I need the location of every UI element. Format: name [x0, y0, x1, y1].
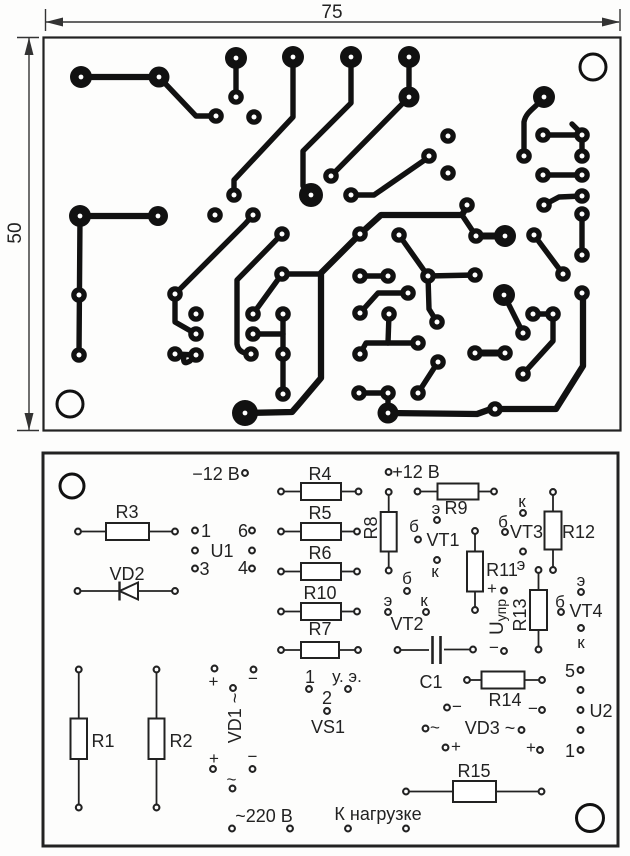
svg-text:VT2: VT2 — [390, 614, 423, 634]
wire thick (476,236)-(505,236) — [476, 233, 505, 240]
svg-text:VT1: VT1 — [426, 530, 459, 550]
pad (360,234) — [352, 226, 368, 242]
wire s-curve (175,354)-(196,355) — [175, 354, 196, 363]
pad ~220V left — [229, 826, 235, 832]
pad (495,409) — [487, 401, 503, 417]
pad (543,135) — [535, 127, 551, 143]
VT1 pad э — [434, 517, 440, 523]
wire diagonal (282,274)-(253,314) — [253, 274, 282, 314]
wire main vertical x=321 — [245, 234, 360, 413]
pad (196,334) — [188, 326, 204, 342]
pad (234,195) — [226, 187, 242, 203]
resistor R7 — [278, 619, 361, 658]
svg-text:VT4: VT4 — [569, 601, 602, 621]
pad (429,156) — [421, 148, 437, 164]
svg-text:VD1 ~: VD1 ~ — [225, 693, 245, 744]
svg-text:5: 5 — [565, 661, 575, 681]
VT4 pad к — [578, 625, 584, 631]
wire vertical (409,57)-(409,97) — [406, 57, 411, 97]
svg-text:−: − — [528, 699, 538, 718]
pad (523,333) — [515, 325, 531, 341]
VD3 pad ~ right — [519, 727, 525, 733]
pad (253,215) — [245, 207, 261, 223]
svg-text:+: + — [487, 579, 497, 598]
pad (438,362) — [430, 354, 446, 370]
pad (79,355) — [71, 347, 87, 363]
pad (175,294) — [167, 286, 183, 302]
svg-text:4: 4 — [238, 558, 248, 578]
resistor R13 — [510, 567, 547, 652]
resistor R10 — [278, 583, 360, 620]
svg-text:R5: R5 — [308, 503, 331, 523]
svg-text:э: э — [577, 571, 586, 590]
pad Uупр - — [501, 648, 507, 654]
wire curved (544,97)-(524,156) — [524, 97, 544, 156]
op-amp U2 — [578, 667, 584, 753]
component board outline (bottom view) — [43, 453, 618, 846]
pad large (236,58) — [225, 47, 247, 69]
svg-text:у. э.: у. э. — [332, 667, 362, 686]
wire (351,195)-(429,157) — [351, 157, 429, 195]
pad (543,175) — [535, 167, 551, 183]
svg-text:э: э — [432, 499, 441, 518]
wire from pad (293,57) — [234, 57, 293, 195]
pad (283,314) — [275, 306, 291, 322]
VS1 pad 1 — [306, 686, 312, 692]
svg-text:VD3 ~: VD3 ~ — [465, 718, 516, 738]
svg-text:VT3: VT3 — [510, 522, 543, 542]
pad (196,355) — [188, 347, 204, 363]
svg-text:б: б — [409, 517, 419, 536]
pad (418,393) — [410, 385, 426, 401]
pad (282,234) — [274, 226, 290, 242]
pad (553,314) — [545, 306, 561, 322]
svg-text:−: − — [452, 697, 462, 716]
pad К нагрузке right — [403, 826, 409, 832]
pad large (504,295) — [493, 284, 515, 306]
svg-text:б: б — [402, 569, 412, 588]
pad Uупр + — [501, 588, 507, 594]
VD1 pad ~ bottom — [230, 786, 236, 792]
svg-text:75: 75 — [321, 2, 342, 23]
pad (360,354) — [352, 346, 368, 362]
pad (582,175) — [574, 167, 590, 183]
VT3 pad б — [502, 529, 508, 535]
wire (253,215)-(175,294) — [175, 215, 253, 294]
pad (360,313) — [352, 305, 368, 321]
svg-text:−: − — [489, 638, 499, 657]
svg-text:−: − — [248, 747, 258, 766]
dimension line 50 — [17, 38, 39, 431]
VD1 pad + top — [212, 666, 218, 672]
pad large (80,216) — [69, 205, 91, 227]
VT1 pad к — [434, 557, 440, 563]
diode VD2 — [75, 582, 178, 601]
pad large (409,57) — [398, 46, 420, 68]
resistor R12 — [545, 489, 596, 573]
pad large (409,97) — [399, 87, 420, 108]
wire (408,293)-(360,313) — [360, 293, 408, 313]
svg-text:C1: C1 — [419, 672, 442, 692]
svg-text:R9: R9 — [444, 498, 467, 518]
svg-text:R12: R12 — [562, 522, 595, 542]
svg-text:R1: R1 — [91, 731, 114, 751]
svg-text:R14: R14 — [488, 690, 521, 710]
wire diagonal (534,235)-(563,274) — [534, 235, 563, 274]
VT2 pad б — [404, 588, 410, 594]
svg-text:к: к — [420, 591, 428, 610]
pad (283,354) — [275, 346, 291, 362]
op-amp U1 — [192, 528, 255, 572]
pad (534,235) — [526, 227, 542, 243]
pad (582,135) — [574, 127, 590, 143]
wire vertical (389,314)-(388,343) — [388, 314, 389, 343]
svg-text:+: + — [451, 737, 461, 756]
VT2 pad э — [385, 609, 391, 615]
resistor R5 — [278, 503, 360, 540]
svg-text:э: э — [517, 555, 526, 574]
svg-text:~220 В: ~220 В — [235, 806, 293, 826]
pad (253,314) — [245, 306, 261, 322]
pad (283,394) — [275, 386, 291, 402]
resistor R14 — [464, 672, 545, 711]
pad (563,274) — [555, 266, 571, 282]
svg-text:2: 2 — [322, 688, 332, 708]
pad -12V — [242, 470, 248, 476]
pad large (245,413) — [232, 400, 258, 426]
pad large (311,195) — [299, 183, 323, 207]
wire pair (360,276)-(388,276) — [360, 273, 388, 278]
svg-text:VS1: VS1 — [311, 717, 345, 737]
pad (467,205) — [459, 197, 475, 213]
resistor R8 — [361, 489, 397, 573]
svg-text:R2: R2 — [169, 731, 192, 751]
VT4 pad э — [578, 589, 584, 595]
PCB board outline (top view) — [44, 38, 621, 431]
wire (80,216)-(158,216) — [80, 213, 158, 219]
wire (418,343)-(360,354) — [360, 343, 418, 354]
pad ~220V right — [287, 826, 293, 832]
pad large (81,77) — [70, 66, 92, 88]
wire group (543,135) — [543, 124, 582, 156]
svg-text:+: + — [209, 749, 219, 768]
wire vertical (582,214)-(582,255) — [579, 214, 584, 255]
pad (388,393) — [380, 385, 396, 401]
VD3 pad ~ left — [423, 726, 429, 732]
svg-text:R7: R7 — [308, 619, 331, 639]
pad large (505,236) — [494, 225, 516, 247]
resistor R15 — [403, 761, 544, 802]
wire horizontal net y=215 — [360, 206, 467, 234]
svg-text:1: 1 — [201, 521, 211, 541]
VD3 pad + left — [443, 745, 449, 751]
wire branch to pad (476,236) — [462, 215, 476, 236]
pad (582,156) — [574, 148, 590, 164]
wire diag to pad (216,116) — [159, 77, 216, 116]
VT4 pad б — [558, 609, 564, 615]
mounting hole top-left — [60, 474, 84, 498]
VT3 pad к — [520, 510, 526, 516]
pad (389,314) — [381, 306, 397, 322]
pad (351,195) — [343, 187, 359, 203]
svg-text:R8: R8 — [361, 516, 381, 539]
wire thick (475,353)-(505,353) — [475, 350, 505, 357]
svg-text:−12 В: −12 В — [192, 464, 240, 484]
pad large (293,57) — [282, 46, 304, 68]
pad (251,354) — [243, 346, 259, 362]
pad (253,334) — [245, 326, 261, 342]
resistor R3 — [75, 502, 178, 540]
pad (216,116) — [208, 108, 224, 124]
resistor R6 — [278, 543, 360, 580]
resistor R4 — [278, 464, 361, 500]
pad (282,274) — [274, 266, 290, 282]
pad (505,353) — [497, 345, 513, 361]
svg-text:1: 1 — [305, 667, 315, 687]
svg-text:R3: R3 — [115, 502, 138, 522]
pad (448,136) — [440, 128, 456, 144]
svg-text:R10: R10 — [303, 583, 336, 603]
svg-text:3: 3 — [199, 559, 209, 579]
VD3 pad - left — [444, 705, 450, 711]
mounting hole top-right — [580, 54, 606, 80]
VD1 pad + bottom — [210, 766, 216, 772]
VS1 pad у.э. — [345, 686, 351, 692]
VD3 pad - right — [539, 707, 545, 713]
pad (215,215) — [207, 207, 223, 223]
svg-text:−: − — [248, 669, 258, 688]
VD1 pad - top — [251, 667, 257, 673]
svg-text:+: + — [526, 738, 536, 757]
pad (582,214) — [574, 206, 590, 222]
pad (582,196) — [574, 188, 590, 204]
wire from pad (351,57) — [303, 57, 351, 195]
pad (437,322) — [429, 314, 445, 330]
svg-text:R15: R15 — [457, 761, 490, 781]
pad +12V — [386, 469, 392, 475]
svg-text:к: к — [577, 633, 585, 652]
VT1 pad б — [415, 537, 421, 543]
svg-text:U1: U1 — [210, 541, 233, 561]
pad (175,354) — [167, 346, 183, 362]
wire (282,274)-(321,274) — [282, 271, 321, 276]
wire (175,294)-(196,334) — [175, 294, 196, 334]
pad К нагрузке left — [345, 826, 351, 832]
VD3 pad + right — [537, 747, 543, 753]
svg-text:U2: U2 — [589, 701, 612, 721]
pad (475,275) — [467, 267, 483, 283]
mounting hole bottom-right — [577, 805, 604, 832]
wire vertical (236,58)-(236,97) — [233, 58, 238, 97]
svg-text:50: 50 — [5, 222, 26, 243]
VD1 pad - bottom — [250, 766, 256, 772]
svg-text:VD2: VD2 — [109, 564, 144, 584]
resistor R11 — [467, 528, 518, 613]
svg-text:+12 В: +12 В — [392, 462, 440, 482]
mounting hole bottom-left — [57, 391, 83, 417]
pad (254,117) — [246, 109, 262, 125]
VD1 pad ~ top — [230, 685, 236, 691]
svg-text:R13: R13 — [510, 598, 530, 631]
svg-text:+: + — [209, 672, 219, 691]
pad (523,374) — [515, 366, 531, 382]
wire pad1-pad2 top-left — [81, 74, 159, 80]
pad (236,97) — [228, 89, 244, 105]
pad (418,343) — [410, 335, 426, 351]
pad large (159,77) — [149, 67, 170, 88]
pad large (351,57) — [340, 46, 362, 68]
wire (253,334)-(283,334) — [253, 331, 283, 336]
pad (408,293) — [400, 285, 416, 301]
wire (533,314)-(523,374) — [523, 314, 553, 374]
pad (399,235) — [391, 227, 407, 243]
pad (544,205) — [536, 197, 552, 213]
wire vertical (283,314)-(283,394) — [280, 314, 285, 394]
svg-text:R4: R4 — [308, 464, 331, 484]
pad large (544,97) — [533, 86, 555, 108]
wire diagonal (504,295)-(523,333) — [504, 295, 523, 333]
resistor R9 — [415, 484, 497, 519]
resistor R1 — [71, 667, 115, 811]
pad (388,276) — [380, 268, 396, 284]
pad (196,314) — [188, 306, 204, 322]
resistor R2 — [149, 667, 193, 811]
svg-text:R6: R6 — [308, 543, 331, 563]
wire diagonal (438,362)-(418,393) — [418, 362, 438, 393]
wire (543,175)-(582,175) — [543, 172, 582, 177]
svg-text:к: к — [431, 562, 439, 581]
VT2 pad к — [423, 609, 429, 615]
wire (359,393)-(388,413) — [359, 393, 388, 413]
pad (475,353) — [467, 345, 483, 361]
pad (476,236) — [468, 228, 484, 244]
capacitor C1 — [395, 636, 476, 664]
svg-text:1: 1 — [565, 741, 575, 761]
pad (524,156) — [516, 148, 532, 164]
wire vertical (80,216)-(79,355) — [79, 216, 80, 355]
svg-text:К нагрузке: К нагрузке — [334, 804, 421, 824]
svg-text:6: 6 — [238, 521, 248, 541]
wire zigzag (544,205)-(582,196) — [544, 196, 582, 205]
pad (582,255) — [574, 247, 590, 263]
wire net around (428,276) — [399, 235, 475, 322]
pad (448,173) — [440, 165, 456, 181]
svg-text:к: к — [518, 492, 526, 511]
VT3 pad э — [520, 549, 526, 555]
pad (533,314) — [525, 306, 541, 322]
wire long bottom net — [388, 293, 583, 414]
pad (360,276) — [352, 268, 368, 284]
svg-text:R11: R11 — [486, 560, 518, 580]
pad large (388,413) — [378, 403, 399, 424]
wire (282,234)-(251,354) — [237, 234, 282, 354]
pad (331,176) — [323, 168, 339, 184]
dimension line 75 — [46, 9, 621, 31]
wire diagonal (409,97)-(331,176) — [331, 97, 409, 176]
pad (79,295) — [71, 287, 87, 303]
pad large (158,216) — [148, 206, 168, 226]
pad (582,293) — [574, 285, 590, 301]
svg-text:~: ~ — [430, 718, 440, 737]
svg-text:э: э — [384, 591, 393, 610]
VS1 pad 2 — [324, 708, 330, 714]
pad (428,276) — [420, 268, 436, 284]
pad (359,393) — [351, 385, 367, 401]
